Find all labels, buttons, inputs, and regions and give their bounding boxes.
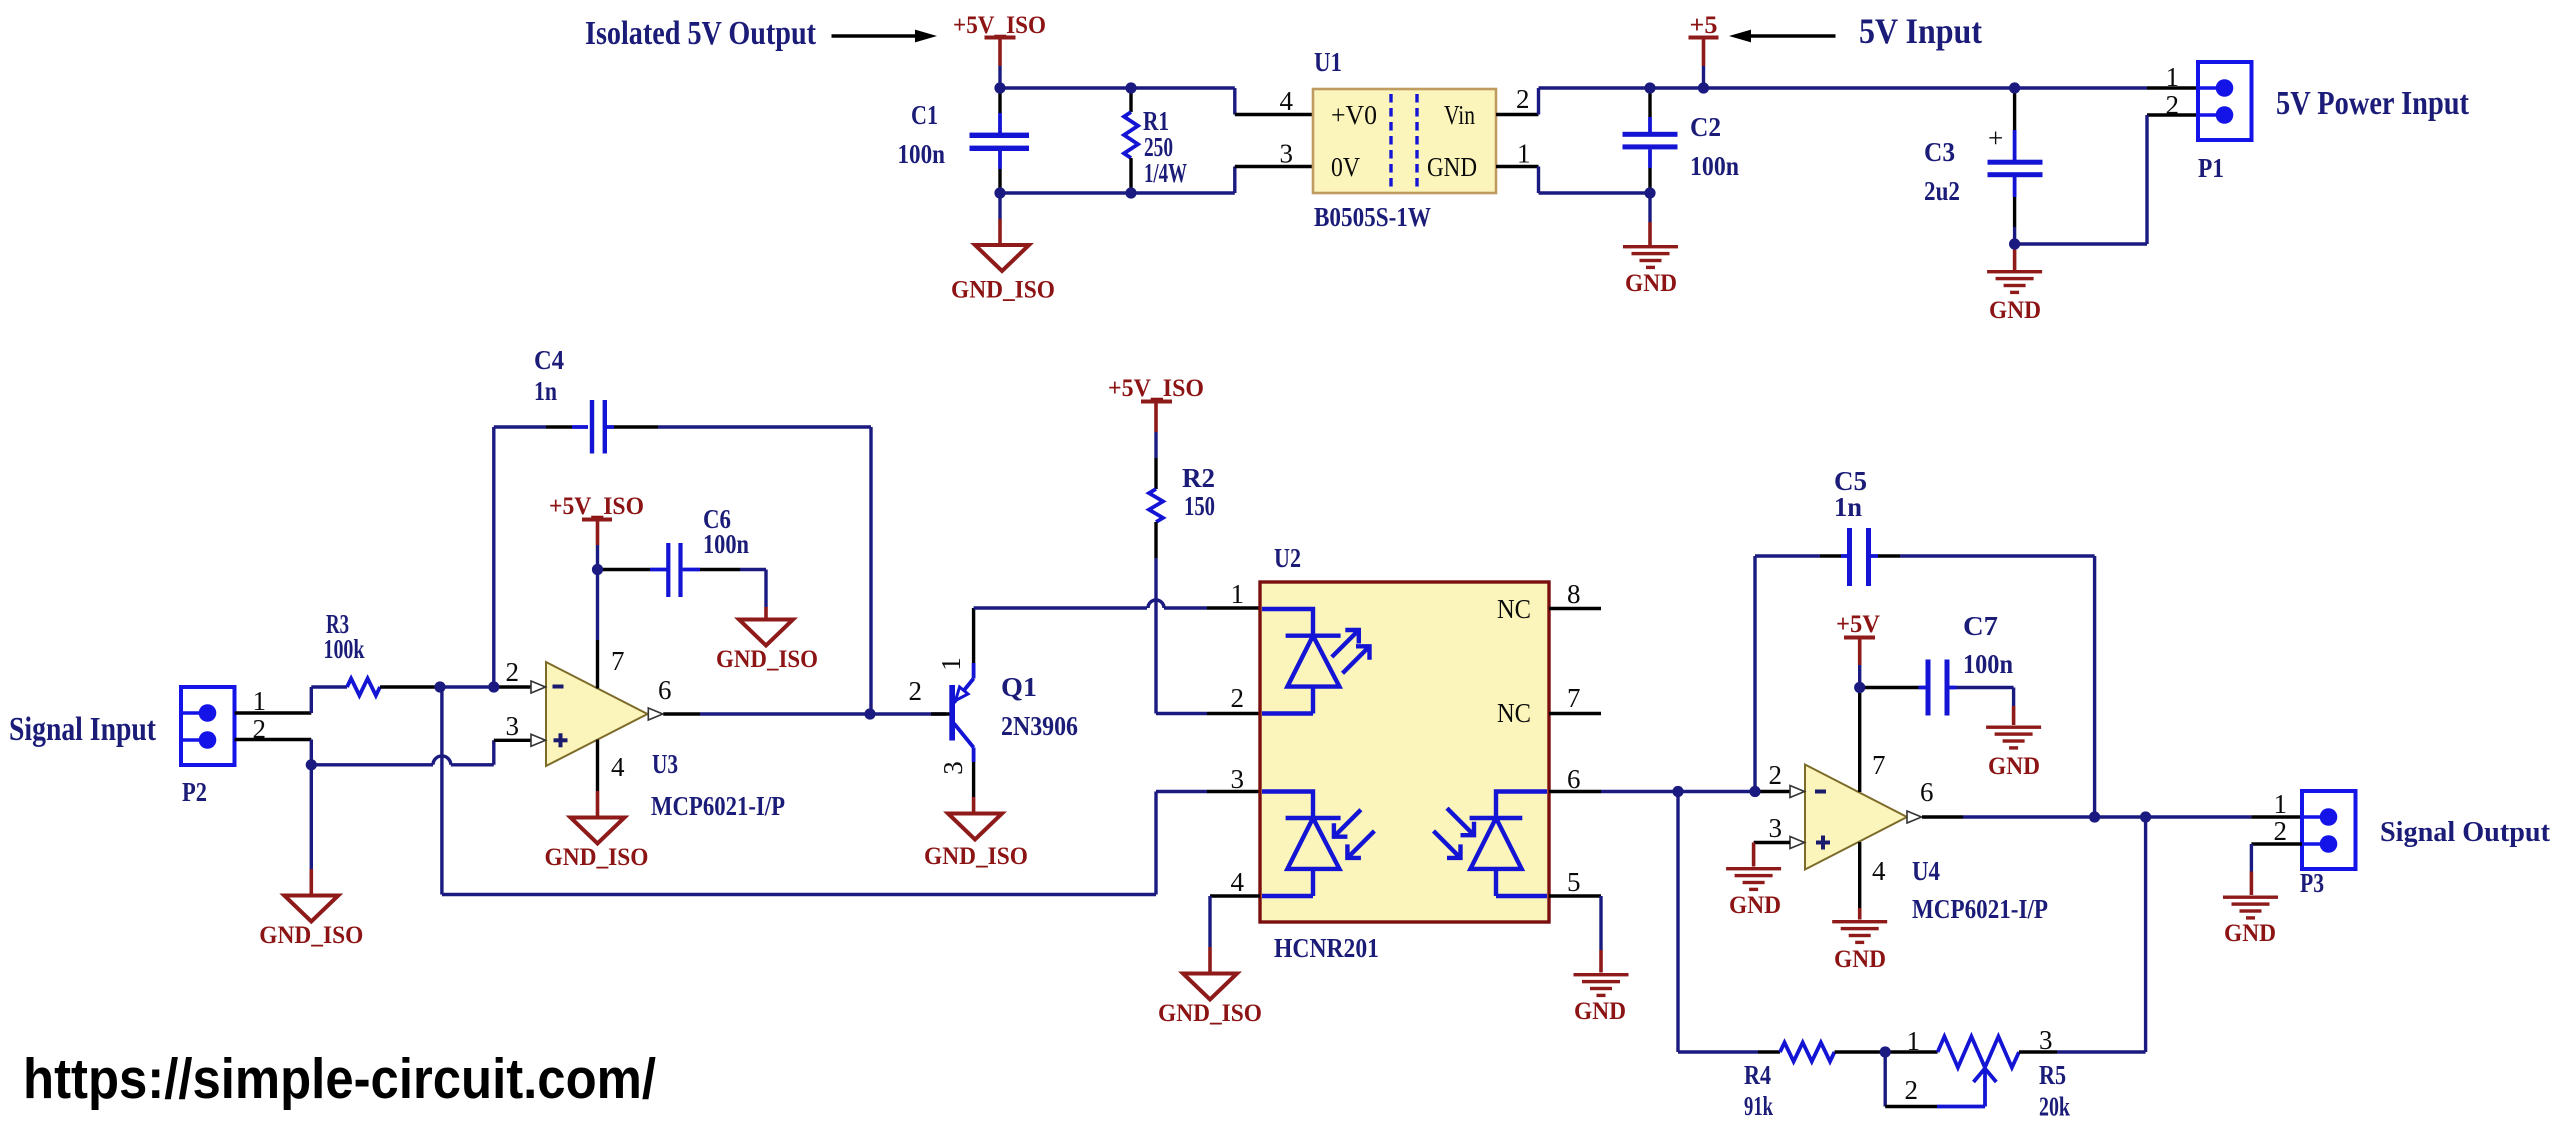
svg-text:3: 3 <box>2039 1025 2053 1055</box>
svg-text:GND: GND <box>1988 753 2040 780</box>
svg-text:2N3906: 2N3906 <box>1001 711 1078 741</box>
svg-text:7: 7 <box>611 646 625 676</box>
svg-text:100n: 100n <box>1690 151 1739 181</box>
svg-text:2: 2 <box>2274 816 2288 846</box>
svg-text:1n: 1n <box>534 376 557 406</box>
svg-text:C1: C1 <box>911 100 938 130</box>
svg-text:GND_ISO: GND_ISO <box>951 277 1055 304</box>
svg-text:3: 3 <box>1280 139 1294 169</box>
svg-text:1: 1 <box>2166 62 2180 92</box>
svg-text:P2: P2 <box>182 777 207 807</box>
svg-text:2: 2 <box>1516 84 1530 114</box>
svg-text:https://simple-circuit.com/: https://simple-circuit.com/ <box>23 1047 656 1111</box>
svg-text:2: 2 <box>2166 90 2180 120</box>
svg-text:0V: 0V <box>1331 152 1360 182</box>
svg-text:100n: 100n <box>898 139 946 169</box>
svg-text:GND: GND <box>1625 270 1677 297</box>
svg-text:GND_ISO: GND_ISO <box>924 843 1028 870</box>
svg-text:NC: NC <box>1497 594 1531 624</box>
svg-text:2: 2 <box>1905 1075 1919 1105</box>
svg-text:150: 150 <box>1184 491 1215 521</box>
svg-text:NC: NC <box>1497 698 1531 728</box>
svg-text:R4: R4 <box>1744 1060 1771 1090</box>
svg-text:1: 1 <box>1231 579 1245 609</box>
svg-text:7: 7 <box>1872 750 1886 780</box>
svg-text:6: 6 <box>1920 777 1934 807</box>
svg-text:91k: 91k <box>1744 1091 1773 1121</box>
svg-text:GND_ISO: GND_ISO <box>716 646 818 673</box>
svg-text:2u2: 2u2 <box>1924 176 1960 206</box>
svg-text:GND: GND <box>1729 892 1781 919</box>
svg-text:GND_ISO: GND_ISO <box>1158 1000 1262 1027</box>
svg-text:+V0: +V0 <box>1331 100 1377 130</box>
svg-text:6: 6 <box>1567 764 1581 794</box>
svg-text:6: 6 <box>658 675 672 705</box>
svg-text:5V Power Input: 5V Power Input <box>2276 85 2470 122</box>
svg-text:U3: U3 <box>652 749 678 779</box>
svg-text:Vin: Vin <box>1444 100 1475 130</box>
svg-text:U1: U1 <box>1314 47 1342 77</box>
svg-text:4: 4 <box>611 752 625 782</box>
svg-text:1: 1 <box>1907 1026 1921 1056</box>
svg-text:2: 2 <box>1231 683 1245 713</box>
svg-text:Signal Input: Signal Input <box>9 711 157 748</box>
svg-text:GND: GND <box>1989 297 2041 324</box>
svg-text:2: 2 <box>1769 760 1783 790</box>
svg-text:+5V_ISO: +5V_ISO <box>953 12 1046 39</box>
svg-text:100n: 100n <box>1963 649 2013 679</box>
svg-text:7: 7 <box>1567 683 1581 713</box>
svg-text:+5: +5 <box>1690 12 1718 39</box>
svg-text:R5: R5 <box>2039 1060 2066 1090</box>
svg-text:1/4W: 1/4W <box>1144 158 1187 188</box>
svg-text:2: 2 <box>506 657 520 687</box>
svg-text:4: 4 <box>1231 867 1245 897</box>
svg-text:5: 5 <box>1567 867 1581 897</box>
svg-text:100k: 100k <box>324 634 365 664</box>
svg-text:C7: C7 <box>1963 611 1998 641</box>
svg-text:3: 3 <box>1231 764 1245 794</box>
svg-text:+5V: +5V <box>1836 611 1880 638</box>
svg-text:R2: R2 <box>1182 463 1215 493</box>
svg-text:Q1: Q1 <box>1001 672 1037 702</box>
svg-text:+5V_ISO: +5V_ISO <box>1108 375 1204 402</box>
svg-text:P3: P3 <box>2300 868 2324 898</box>
svg-text:GND: GND <box>1574 998 1626 1025</box>
svg-text:U4: U4 <box>1912 856 1940 886</box>
svg-text:100n: 100n <box>703 529 749 559</box>
svg-text:4: 4 <box>1280 86 1294 116</box>
svg-text:1: 1 <box>936 657 966 671</box>
svg-text:+5V_ISO: +5V_ISO <box>549 493 644 520</box>
svg-text:GND: GND <box>2224 920 2276 947</box>
svg-text:MCP6021-I/P: MCP6021-I/P <box>651 791 785 821</box>
svg-text:8: 8 <box>1567 579 1581 609</box>
svg-text:4: 4 <box>1872 856 1886 886</box>
svg-text:1: 1 <box>2274 789 2288 819</box>
svg-text:C2: C2 <box>1690 112 1721 142</box>
svg-text:20k: 20k <box>2039 1092 2070 1122</box>
svg-text:2: 2 <box>909 676 923 706</box>
svg-text:3: 3 <box>938 761 968 775</box>
svg-text:P1: P1 <box>2198 153 2224 183</box>
svg-text:Signal Output: Signal Output <box>2380 816 2550 848</box>
svg-text:C4: C4 <box>534 345 564 375</box>
svg-text:3: 3 <box>506 711 520 741</box>
svg-text:B0505S-1W: B0505S-1W <box>1314 202 1431 232</box>
svg-text:3: 3 <box>1769 813 1783 843</box>
svg-text:U2: U2 <box>1274 543 1301 573</box>
svg-text:HCNR201: HCNR201 <box>1274 933 1379 963</box>
svg-text:GND_ISO: GND_ISO <box>545 844 649 871</box>
svg-text:1n: 1n <box>1834 492 1862 522</box>
svg-text:5V Input: 5V Input <box>1859 11 1982 51</box>
svg-text:Isolated 5V Output: Isolated 5V Output <box>585 15 817 52</box>
svg-text:1: 1 <box>1517 139 1531 169</box>
svg-text:C3: C3 <box>1924 137 1955 167</box>
svg-text:+: + <box>1988 123 2003 153</box>
svg-text:GND: GND <box>1834 946 1886 973</box>
svg-text:MCP6021-I/P: MCP6021-I/P <box>1912 894 2048 924</box>
svg-text:GND: GND <box>1427 152 1477 182</box>
svg-text:GND_ISO: GND_ISO <box>259 922 363 949</box>
